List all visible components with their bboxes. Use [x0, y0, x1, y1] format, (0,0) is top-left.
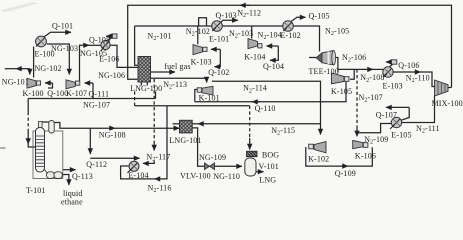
wire NG-106: [110, 45, 138, 67]
reboiler of T-101: [45, 170, 63, 179]
wire Q-103: [219, 20, 238, 24]
heat exchanger LNG-100: [138, 57, 151, 83]
svg-text:NG-102: NG-102: [35, 64, 62, 73]
svg-text:ethane: ethane: [61, 198, 83, 207]
wire N2-109: [357, 124, 391, 133]
svg-text:LNG-101: LNG-101: [169, 136, 201, 145]
wire N2-112 recycle top line: [128, 5, 452, 87]
svg-text:K-104: K-104: [244, 52, 265, 61]
wire Q-106: [386, 61, 391, 63]
wire NG-102: [33, 47, 35, 78]
svg-text:K-107: K-107: [66, 89, 87, 98]
wire LNG product: [256, 171, 264, 173]
wire N2-106: [334, 58, 338, 73]
column T-101 tower: [36, 122, 45, 173]
wire Q-100: [45, 82, 53, 84]
svg-text:K-103: K-103: [191, 58, 212, 67]
wire N2-102 jog over spine: [199, 18, 207, 26]
svg-text:NG-109: NG-109: [199, 153, 226, 162]
svg-text:K-100: K-100: [23, 89, 44, 98]
wire N2-101/N2-102 spine to E-101: [135, 25, 212, 27]
svg-text:Q-106: Q-106: [398, 61, 419, 70]
column T-101 sub-flowsheet box: [33, 131, 63, 179]
wire N2-102 from K-103: [197, 26, 199, 44]
svg-text:Q-113: Q-113: [72, 172, 93, 181]
wire N2-117 dashed: [153, 79, 155, 141]
wire LNG-100 bottom stubs: [141, 82, 147, 86]
cooler E-106: [101, 40, 110, 50]
wire NG-101 feed: [16, 68, 30, 70]
mixer MIX-100: [435, 80, 449, 96]
wire N2-105: [293, 26, 319, 52]
svg-text:NG-106: NG-106: [98, 71, 125, 80]
svg-text:Q-103: Q-103: [216, 11, 237, 20]
svg-text:NG-110: NG-110: [213, 172, 240, 181]
scan tick left edge: [0, 147, 6, 149]
wire N2-101: [135, 26, 138, 65]
splitter TEE-100: [316, 51, 336, 65]
compressor K-106: [353, 141, 368, 149]
svg-text:Q-102: Q-102: [208, 68, 229, 77]
wire Q-110: [135, 105, 250, 107]
svg-text:V-101: V-101: [259, 162, 279, 171]
wire N2-103: [222, 25, 282, 27]
wire N2-108: [350, 69, 354, 79]
wire N2-111: [402, 96, 435, 123]
wire Q-104: [267, 45, 279, 47]
svg-text:LNG: LNG: [259, 176, 276, 185]
cooler E-101: [212, 21, 223, 32]
svg-text:E-104: E-104: [128, 171, 148, 180]
wire T-101 overhead: [40, 121, 51, 128]
valve VLV-100: [205, 163, 215, 170]
wire N2-115: [198, 123, 321, 125]
wire NG-108: [54, 123, 115, 129]
BOG heater box: [247, 151, 258, 157]
svg-text:K-101: K-101: [199, 94, 220, 103]
wire Q-106 energy box: [391, 60, 397, 64]
wire Q-111: [85, 82, 94, 84]
svg-text:T-101: T-101: [26, 186, 46, 195]
wire N2-105 inlet stub: [309, 57, 316, 59]
wire Q-101: [44, 32, 71, 37]
svg-text:Q-108: Q-108: [89, 36, 110, 45]
svg-text:E-101: E-101: [209, 34, 229, 43]
svg-text:K-102: K-102: [308, 155, 329, 164]
svg-text:NG-103: NG-103: [51, 44, 78, 53]
compressor K-107: [66, 80, 80, 89]
wire NG-105: [80, 45, 90, 80]
svg-text:TEE-100: TEE-100: [309, 67, 339, 76]
wire Q-109: [306, 147, 348, 166]
svg-text:LNG-100: LNG-100: [130, 84, 162, 93]
cooler E-103: [383, 67, 393, 77]
separator V-101: [245, 158, 256, 176]
wire Q-108 energy box: [112, 34, 117, 38]
svg-text:K-106: K-106: [355, 152, 376, 161]
wire NG-107: [28, 83, 93, 99]
svg-text:N2-107: N2-107: [359, 93, 383, 104]
wire fuel gas: [151, 71, 176, 73]
wire N2-113: [151, 78, 207, 82]
wire NG-109: [192, 128, 204, 166]
cooler E-100: [36, 36, 47, 47]
compressor K-101: [197, 86, 213, 95]
heat exchanger LNG-101: [180, 120, 193, 133]
svg-text:NG-108: NG-108: [99, 131, 126, 140]
wire N2-110: [393, 71, 420, 73]
wire Q-108: [106, 35, 112, 37]
wire K-105 to K-101 suction line: [195, 82, 346, 102]
svg-text:Q-112: Q-112: [86, 160, 107, 169]
svg-text:E-105: E-105: [391, 130, 411, 139]
wire Q-102: [211, 48, 220, 50]
svg-text:BOG: BOG: [262, 150, 279, 159]
compressor K-100: [27, 78, 41, 88]
wire Q-105: [291, 17, 306, 21]
svg-text:NG-107: NG-107: [83, 101, 110, 110]
svg-text:E-106: E-106: [99, 55, 119, 64]
cooler E-102: [283, 21, 294, 32]
wire Q-107: [386, 106, 409, 108]
svg-text:K-105: K-105: [331, 87, 352, 96]
wire into K-104: [251, 26, 253, 39]
wire NG-103: [47, 44, 70, 75]
wire N2-107 dashed: [356, 69, 358, 126]
heater E-104: [128, 161, 140, 173]
svg-text:E-100: E-100: [35, 49, 55, 58]
scan smudge top-left: [1, 2, 38, 13]
svg-text:Q-105: Q-105: [309, 12, 330, 21]
cooler E-105: [390, 117, 402, 129]
condenser drum of T-101: [49, 121, 54, 134]
svg-text:VLV-100: VLV-100: [180, 172, 211, 181]
svg-text:Q-109: Q-109: [335, 169, 356, 178]
expander K-103: [193, 45, 207, 55]
svg-text:Q-110: Q-110: [255, 104, 276, 113]
compressor K-102: [309, 142, 326, 153]
svg-text:fuel gas: fuel gas: [164, 62, 190, 71]
svg-text:Q-107: Q-107: [376, 110, 397, 119]
expander K-104: [248, 39, 262, 49]
svg-text:E-102: E-102: [281, 31, 301, 40]
svg-text:Q-101: Q-101: [52, 22, 73, 31]
wire N2-116: [155, 106, 168, 179]
wire MIX-100 outlet: [448, 87, 452, 89]
wire NG-110: [215, 165, 243, 167]
expander K-105: [331, 73, 349, 84]
wire Q-112: [89, 128, 91, 154]
svg-text:MIX-100: MIX-100: [432, 99, 463, 108]
wire Q-113: [63, 169, 76, 171]
svg-text:Q-111: Q-111: [89, 89, 110, 98]
wire N2-114: [212, 81, 321, 134]
svg-text:E-103: E-103: [383, 82, 403, 91]
svg-text:Q-104: Q-104: [263, 62, 284, 71]
wire liquid ethane: [62, 175, 69, 186]
svg-text:NG-101: NG-101: [2, 77, 29, 86]
